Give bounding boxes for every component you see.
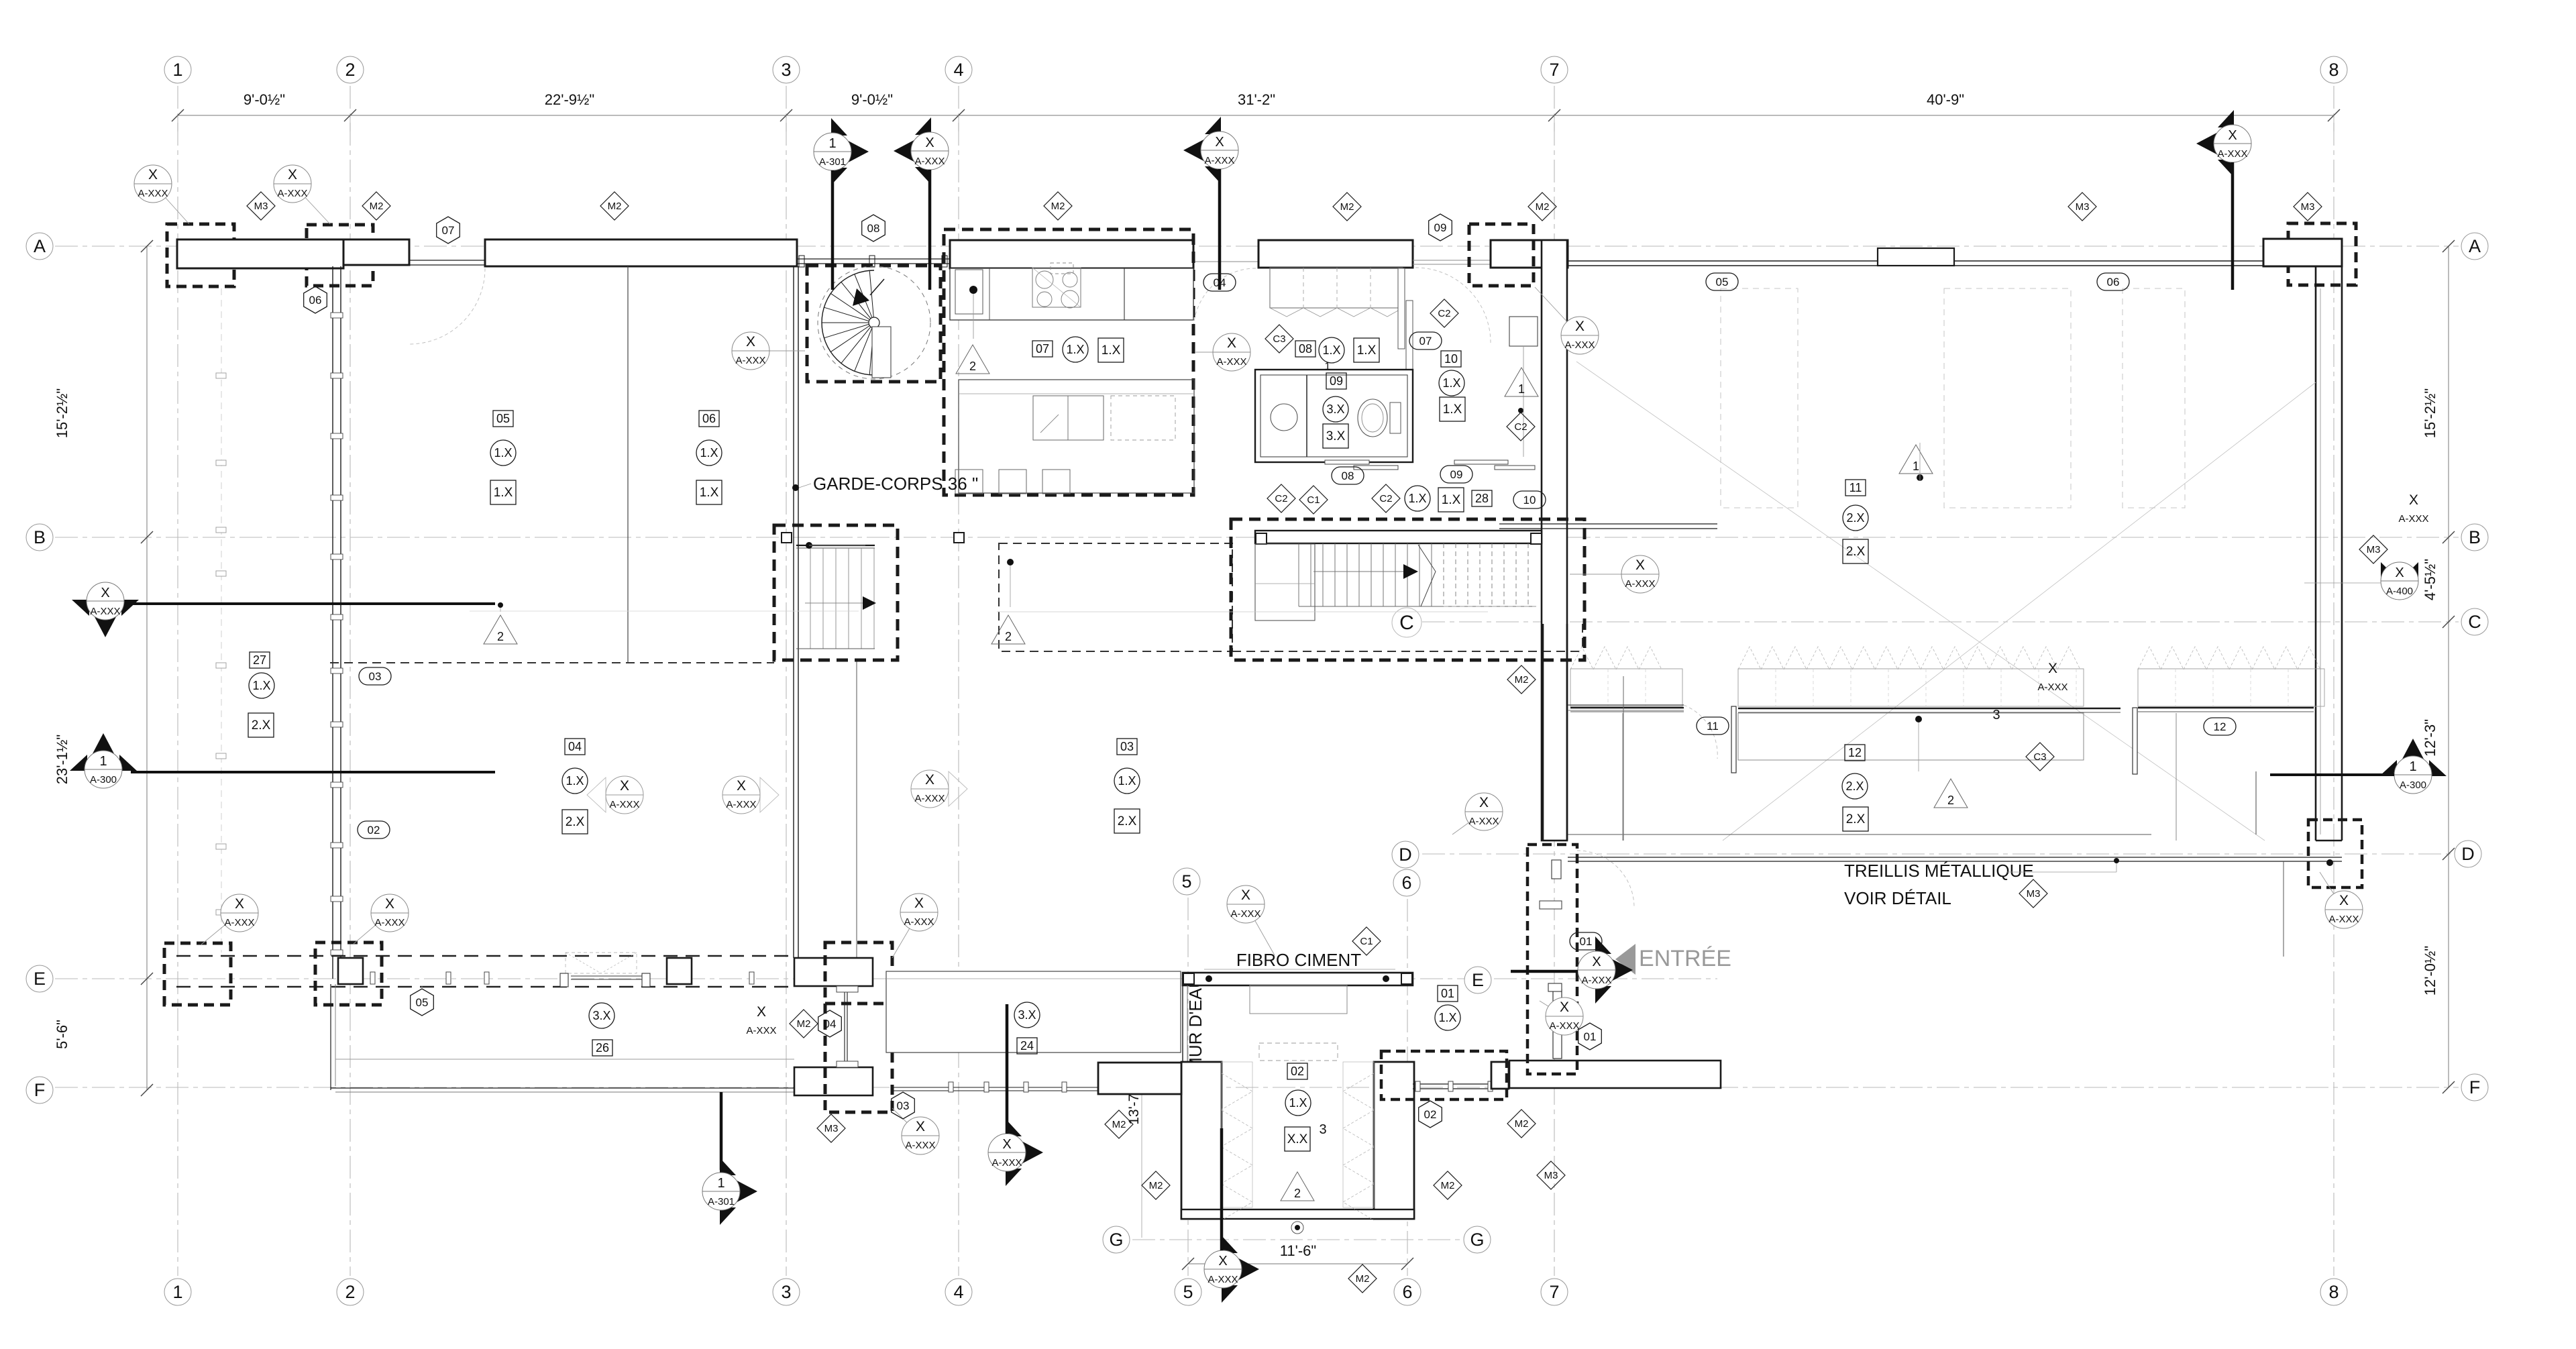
tag square 24 — [1017, 1038, 1037, 1054]
grid node square at 4/B — [954, 533, 964, 543]
section line — [928, 170, 932, 290]
grid line 5 (vertical) — [1187, 898, 1189, 1276]
svg-text:12'-0½": 12'-0½" — [2422, 946, 2438, 995]
door between blocks — [844, 986, 845, 1067]
grid bubble E — [1464, 967, 1491, 993]
tag oval 01 — [1570, 932, 1602, 950]
tag oval 03 — [359, 667, 391, 685]
section line left B — [131, 602, 495, 605]
grid bubble 3 — [773, 1279, 800, 1305]
svg-text:X: X — [737, 778, 746, 794]
entry door panel — [1553, 989, 1562, 1059]
entry door frame top — [1552, 860, 1561, 879]
tag square 04 — [565, 739, 585, 755]
tag diamond C1 — [1299, 486, 1328, 514]
grid line G (horizontal) — [1132, 1239, 1461, 1240]
floor opening dashed rectangle — [999, 543, 1232, 651]
section marker X/A-XXX — [894, 117, 949, 184]
svg-text:M2: M2 — [1149, 1180, 1163, 1191]
west glazed wall (grid 1-2 side) — [332, 266, 333, 979]
interior elevation marker X/A-XXX — [722, 776, 779, 814]
section line — [2231, 162, 2235, 290]
svg-text:04: 04 — [1214, 276, 1226, 289]
entry south wall slab — [1509, 1061, 1721, 1088]
tag square 07 — [1032, 341, 1053, 357]
svg-text:M2: M2 — [1441, 1180, 1455, 1191]
hedge box — [1738, 669, 2084, 706]
svg-text:E: E — [34, 969, 46, 989]
deck bench bar — [571, 975, 643, 977]
svg-text:M2: M2 — [1356, 1273, 1370, 1285]
svg-text:1.X: 1.X — [252, 679, 270, 692]
svg-text:2.X: 2.X — [252, 718, 271, 733]
svg-text:X: X — [746, 334, 755, 349]
stair B dashed callout box — [774, 525, 898, 660]
svg-text:A-300: A-300 — [90, 774, 117, 786]
svg-text:9'-0½": 9'-0½" — [851, 91, 893, 108]
grid bubble G — [1464, 1226, 1491, 1253]
spiral stair dashed circle — [818, 266, 930, 379]
svg-text:MUR D'EAU: MUR D'EAU — [1185, 975, 1205, 1072]
section marker X/A-XXX — [1204, 1236, 1259, 1303]
tag square 1.X — [1438, 488, 1464, 512]
north window/door sill grid2-3 — [409, 260, 485, 261]
svg-text:A-XXX: A-XXX — [1564, 339, 1595, 351]
svg-text:5'-6": 5'-6" — [54, 1020, 70, 1049]
section marker 1/A-301 — [814, 118, 869, 185]
svg-text:C3: C3 — [2033, 751, 2046, 763]
deck dashed callout box 1 — [164, 943, 231, 1005]
svg-text:8: 8 — [2328, 60, 2339, 80]
heavy dashed callout at grid3/EF — [825, 942, 892, 1112]
room 11 shelf — [1568, 704, 1684, 706]
dashed callout box top-left 2 — [307, 225, 373, 286]
north wall segment grid2 — [343, 239, 409, 265]
view reference X/A-XXX — [274, 165, 330, 224]
svg-text:1.X: 1.X — [1102, 343, 1121, 358]
grid line 8 (vertical) — [2333, 86, 2334, 1276]
svg-text:X: X — [1215, 135, 1224, 150]
svg-text:1.X: 1.X — [1442, 493, 1461, 507]
svg-text:E: E — [1472, 970, 1484, 990]
tag oval 05 — [1706, 273, 1738, 290]
svg-text:M3: M3 — [2301, 201, 2315, 213]
section marker X/A-XXX — [72, 582, 139, 637]
spiral stair dashed callout box — [807, 266, 941, 382]
svg-text:9'-0½": 9'-0½" — [244, 91, 285, 108]
E-row wall block at grid 3 (upper) — [794, 958, 873, 986]
svg-text:06: 06 — [309, 294, 322, 307]
wardrobe below north wall — [1270, 268, 1403, 308]
svg-text:4'-5½": 4'-5½" — [2422, 559, 2438, 600]
svg-text:M2: M2 — [1051, 201, 1065, 212]
svg-text:M2: M2 — [1515, 1118, 1529, 1130]
node square at 5/E — [1183, 973, 1194, 984]
svg-text:M2: M2 — [1112, 1119, 1126, 1130]
view reference X/A-XXX — [1195, 333, 1250, 371]
grid bubble B — [2461, 524, 2488, 551]
east wall (grid 8) — [2315, 266, 2317, 841]
tag diamond M2 — [1507, 1110, 1536, 1138]
svg-text:7: 7 — [1549, 1282, 1559, 1302]
svg-text:2: 2 — [497, 630, 504, 643]
svg-text:4: 4 — [953, 1282, 963, 1302]
top dimension line — [178, 115, 2334, 116]
tag diamond M3 — [2294, 193, 2322, 221]
tag triangle 1 — [1505, 368, 1538, 396]
leader line A-400 — [2304, 582, 2381, 584]
svg-text:X: X — [2395, 565, 2404, 580]
deck posts — [370, 972, 375, 984]
svg-text:X: X — [1227, 335, 1236, 351]
door swing vestibule — [1415, 268, 1491, 343]
kitchen stove — [1032, 268, 1081, 307]
tag diamond M2 — [362, 192, 390, 220]
vestibule shelf — [1509, 317, 1538, 346]
dashed callout box top-right corner — [2288, 223, 2356, 285]
svg-text:26: 26 — [596, 1041, 609, 1055]
section marker 1/A-300 — [2379, 739, 2447, 794]
svg-text:M2: M2 — [608, 201, 622, 212]
svg-text:A-XXX: A-XXX — [1625, 578, 1655, 590]
tag circle 3.X — [589, 1003, 614, 1028]
north wall segment grid1-2 — [177, 239, 343, 268]
svg-text:1.X: 1.X — [700, 486, 719, 500]
svg-text:1.X: 1.X — [1357, 343, 1377, 358]
tag square 28 — [1472, 490, 1492, 506]
tag circle 2.X — [1843, 505, 1868, 531]
view reference X/A-XXX — [892, 1108, 939, 1154]
kitchen lower counter — [959, 380, 1194, 493]
interior elevation marker X/A-XXX — [911, 770, 967, 808]
svg-text:3.X: 3.X — [1326, 402, 1344, 416]
svg-text:A-300: A-300 — [2400, 779, 2426, 791]
vestibule sliding doors — [1454, 460, 1508, 464]
stair shaft wall line — [856, 660, 857, 958]
stair C node squares — [1256, 533, 1267, 544]
terrace south wall (row D) — [1568, 857, 2342, 858]
svg-text:A-XXX: A-XXX — [609, 799, 639, 810]
section marker X/A-XXX — [2196, 110, 2251, 177]
view reference X/A-XXX — [354, 894, 409, 944]
svg-text:C2: C2 — [1438, 308, 1450, 319]
stair C wall band — [1255, 531, 1542, 543]
svg-text:03: 03 — [369, 670, 382, 683]
view reference X/A-XXX — [134, 165, 189, 224]
tag hexagon 04 — [818, 1010, 842, 1037]
tag hexagon 07 — [437, 217, 460, 244]
svg-text:A-400: A-400 — [2386, 586, 2413, 597]
svg-text:X: X — [2409, 492, 2418, 508]
svg-text:1: 1 — [828, 136, 836, 151]
svg-text:A-XXX: A-XXX — [224, 917, 254, 928]
tag diamond C2 — [1372, 484, 1400, 512]
svg-text:31'-2": 31'-2" — [1238, 91, 1275, 108]
svg-text:22'-9½": 22'-9½" — [545, 91, 594, 108]
tag hexagon 01 — [1578, 1023, 1602, 1050]
svg-text:06: 06 — [702, 412, 716, 425]
skylight dashed rectangle 2 — [1944, 288, 2071, 508]
grid bubble 8 — [2320, 56, 2347, 83]
F-row window band — [892, 1087, 1098, 1088]
svg-text:3.X: 3.X — [592, 1009, 610, 1022]
svg-text:A-XXX: A-XXX — [1581, 975, 1611, 986]
section line — [1220, 1128, 1224, 1250]
kitchen island counter — [950, 268, 1193, 320]
svg-text:X: X — [1575, 319, 1585, 334]
planter partition left — [1622, 713, 1623, 841]
svg-text:1: 1 — [1913, 460, 1919, 473]
svg-text:A-XXX: A-XXX — [1204, 155, 1234, 166]
svg-text:X: X — [1560, 1000, 1569, 1015]
tag square X.X — [1285, 1127, 1310, 1151]
north window band at spiral stair — [797, 258, 950, 260]
view reference X/A-XXX — [1452, 793, 1503, 834]
stair C solid treads — [1298, 543, 1299, 606]
hedge chevron row — [1738, 647, 1761, 669]
left dimension line — [146, 246, 148, 1090]
svg-text:A-XXX: A-XXX — [1230, 908, 1260, 920]
svg-text:D: D — [2461, 844, 2475, 864]
svg-text:1: 1 — [717, 1176, 724, 1191]
bench end post 3 — [2133, 708, 2137, 774]
svg-text:02: 02 — [1291, 1065, 1304, 1078]
dashed callout at vestibule top — [1469, 224, 1534, 286]
svg-text:M3: M3 — [254, 201, 268, 212]
svg-text:X: X — [925, 136, 934, 150]
svg-text:VOIR DÉTAIL: VOIR DÉTAIL — [1844, 888, 1951, 908]
tag circle 1.X — [1319, 337, 1344, 363]
entry door swing — [1577, 851, 1634, 908]
svg-text:X: X — [1592, 955, 1601, 969]
tag square 2.X — [248, 713, 274, 737]
section marker X/A-400 — [2381, 562, 2418, 600]
kitchen dashed callout box — [944, 229, 1193, 495]
kitchen sink dot — [969, 286, 977, 294]
tag square 08 — [1295, 341, 1316, 357]
right dimension line — [2448, 246, 2449, 1087]
svg-text:12'-3": 12'-3" — [2422, 719, 2438, 757]
tag square 27 — [250, 652, 270, 668]
grid bubble 2 — [337, 56, 364, 83]
view reference X/A-XXX — [1227, 885, 1275, 955]
skylight dashed rectangle 1 — [1721, 288, 1798, 508]
grid line D (horizontal) — [1422, 853, 2452, 855]
svg-text:1.X: 1.X — [1289, 1096, 1307, 1110]
svg-text:M3: M3 — [2027, 888, 2041, 900]
svg-text:C1: C1 — [1307, 494, 1320, 506]
tag hexagon 02 — [1419, 1101, 1442, 1128]
svg-text:A-XXX: A-XXX — [2398, 513, 2428, 525]
svg-text:02: 02 — [368, 824, 380, 837]
west wall mullion ticks — [331, 313, 343, 318]
view reference X/A-XXX — [2320, 872, 2363, 928]
svg-text:M2: M2 — [1515, 674, 1529, 686]
tag diamond M2 — [1507, 665, 1536, 694]
tag square 10 — [1441, 351, 1461, 367]
tag square 02 — [1287, 1063, 1307, 1079]
tag diamond M2 — [1142, 1171, 1170, 1199]
kitchen sink cabinet — [955, 270, 983, 314]
courtyard U wall bottom — [1181, 1209, 1414, 1219]
svg-text:1: 1 — [172, 1282, 182, 1302]
tag diamond M2 — [1333, 193, 1361, 221]
svg-text:A-XXX: A-XXX — [991, 1157, 1022, 1169]
svg-text:A-XXX: A-XXX — [2037, 682, 2068, 693]
svg-text:A-XXX: A-XXX — [90, 606, 120, 617]
grid bubble 3 — [773, 56, 800, 83]
tag square 1.X — [1354, 338, 1379, 362]
terrace diagonal line 2 — [1723, 382, 2316, 841]
svg-text:M2: M2 — [1536, 201, 1550, 213]
tag triangle 1 — [1899, 445, 1933, 474]
svg-text:A-XXX: A-XXX — [746, 1025, 776, 1036]
kitchen stools — [955, 470, 983, 494]
svg-text:15'-2½": 15'-2½" — [2422, 388, 2438, 438]
svg-text:08: 08 — [1342, 470, 1354, 482]
grid bubble 4 — [945, 56, 972, 83]
section line entry — [1511, 970, 1578, 973]
skylight dashed rectangle 3 — [2123, 288, 2185, 508]
spiral stair landing — [872, 327, 891, 378]
svg-text:A: A — [2469, 236, 2481, 256]
svg-text:02: 02 — [1424, 1108, 1437, 1121]
svg-text:FIBRO CIMENT: FIBRO CIMENT — [1236, 950, 1361, 970]
grid bubble F — [2461, 1074, 2488, 1101]
tag diamond M3 — [2359, 535, 2387, 563]
tag hexagon 03 — [892, 1092, 915, 1119]
dot under triangle 1 — [1518, 408, 1523, 413]
svg-text:A-XXX: A-XXX — [726, 799, 756, 810]
svg-text:X: X — [1241, 887, 1250, 903]
svg-text:C: C — [1399, 612, 1414, 634]
svg-text:05: 05 — [496, 412, 510, 425]
tag oval 11 — [1697, 717, 1729, 735]
section line — [720, 1092, 723, 1170]
svg-text:A-XXX: A-XXX — [904, 916, 934, 928]
courtyard left wall upper — [1182, 985, 1183, 1062]
terrace diagonal line 1 — [1576, 362, 2265, 841]
svg-text:C1: C1 — [1360, 936, 1373, 947]
svg-text:A-XXX: A-XXX — [277, 188, 307, 199]
courtyard planter below north wall — [1250, 985, 1347, 1014]
stair B direction arrow — [805, 602, 863, 604]
tag square 2.X — [562, 810, 588, 834]
svg-text:3: 3 — [781, 60, 791, 80]
tag square 1.X — [490, 480, 516, 504]
grid bubble F — [26, 1077, 53, 1103]
grid bubble 1 — [164, 1279, 191, 1305]
svg-text:X: X — [620, 778, 629, 794]
svg-text:1: 1 — [172, 60, 182, 80]
svg-text:X: X — [916, 1119, 925, 1134]
svg-text:2: 2 — [345, 1282, 355, 1302]
tag oval 09 — [1440, 466, 1472, 483]
dashed callout at D corner — [2308, 820, 2362, 887]
svg-text:2: 2 — [969, 360, 976, 373]
tag circle 1.X — [1063, 337, 1088, 362]
grid bubble 8 — [2320, 1279, 2347, 1305]
svg-text:F: F — [2469, 1077, 2481, 1097]
svg-text:X.X: X.X — [1287, 1132, 1308, 1146]
bathroom partition — [1306, 375, 1307, 457]
north door swing grid2-3 — [409, 268, 485, 344]
tag triangle 2 — [956, 345, 989, 374]
svg-text:1.X: 1.X — [1442, 376, 1460, 390]
grid bubble 2 — [337, 1279, 364, 1305]
north window band east wing — [1568, 260, 2263, 262]
svg-text:04: 04 — [824, 1018, 837, 1030]
tag triangle 2 — [484, 615, 517, 644]
dot treillis leader — [2114, 858, 2119, 863]
stair C tread bottom edge — [1299, 606, 1536, 607]
courtyard U wall left — [1181, 1062, 1222, 1219]
grid bubble 6 — [1394, 1279, 1421, 1305]
view reference X/A-XXX — [892, 894, 938, 958]
courtyard planting bed right — [1343, 1062, 1374, 1207]
svg-text:A-301: A-301 — [819, 156, 846, 168]
tag oval 07 — [1409, 332, 1442, 349]
svg-text:X: X — [148, 167, 158, 182]
svg-text:C2: C2 — [1275, 493, 1287, 504]
north wall closet segment — [1258, 240, 1413, 268]
svg-text:2: 2 — [1294, 1187, 1301, 1200]
courtyard east wall block 2 — [1491, 1062, 1509, 1089]
north wall vestibule segment — [1491, 240, 1568, 268]
tag square 26 — [592, 1040, 612, 1056]
kitchen hood dashed — [1051, 263, 1073, 274]
tag diamond C1 — [1352, 927, 1381, 955]
bench bar 1 — [1570, 707, 1684, 709]
svg-text:1.X: 1.X — [700, 446, 718, 460]
spiral stair arrow — [870, 279, 884, 295]
grid bubble C interior — [1392, 608, 1421, 637]
tag square 2.X — [1843, 807, 1868, 831]
svg-text:27: 27 — [253, 653, 266, 667]
courtyard north wall (FIBRO CIMENT) — [1183, 973, 1413, 985]
svg-text:4: 4 — [953, 60, 963, 80]
tag diamond M3 — [2068, 193, 2096, 221]
svg-text:09: 09 — [1450, 468, 1463, 481]
bathroom walls — [1255, 370, 1413, 462]
svg-text:10: 10 — [1444, 352, 1458, 366]
terrace south wall upper line — [1567, 834, 2151, 835]
section line at 1/A-301 top — [831, 170, 835, 290]
floor opening dashed line under stair C — [1232, 651, 1582, 652]
deck bottom edge — [331, 1087, 794, 1089]
svg-text:15'-2½": 15'-2½" — [54, 388, 70, 438]
svg-text:B: B — [34, 527, 46, 547]
grid node square at 3/B — [782, 533, 792, 543]
tag diamond M2 — [790, 1010, 818, 1038]
svg-text:A-XXX: A-XXX — [2328, 914, 2359, 925]
tag circle 1.X — [696, 440, 722, 466]
E-row wall block at grid 3 (lower) — [794, 1067, 873, 1095]
deck column 2 — [667, 958, 692, 984]
svg-text:2.X: 2.X — [1846, 545, 1866, 559]
tag circle 1.X — [249, 673, 274, 698]
tag oval 06 — [2097, 273, 2129, 290]
dot at D corner — [2326, 859, 2333, 866]
tag hexagon 08 — [862, 215, 885, 241]
partition wall between rooms 05/06 — [627, 266, 629, 663]
tag diamond M2 — [1348, 1264, 1377, 1293]
stair B top landing edge — [796, 545, 875, 546]
wardrobe door pivots — [1398, 268, 1405, 349]
svg-text:1.X: 1.X — [1066, 343, 1084, 356]
north wall kitchen segment — [950, 240, 1193, 268]
svg-text:X: X — [2228, 128, 2237, 143]
